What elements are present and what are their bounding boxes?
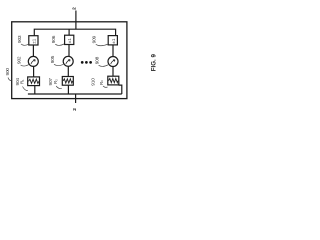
wire: resistor2 to bottom bus: [67, 85, 69, 94]
leader for 907: [56, 86, 62, 89]
wire: source3 to resistor3: [112, 67, 114, 77]
svg-text:FIG. 9: FIG. 9: [150, 54, 157, 72]
svg-text:2: 2: [72, 7, 78, 10]
ellipsis dots: [81, 61, 84, 64]
svg-text:906: 906: [51, 35, 57, 43]
current source 905: [63, 56, 73, 66]
svg-text:±1: ±1: [31, 38, 36, 44]
svg-text:R₂: R₂: [53, 79, 58, 84]
wire: resistor3 hook to bus: [119, 85, 122, 94]
wire: box1 to source1: [32, 45, 34, 56]
leader for 902: [21, 65, 29, 66]
switch box 903: [29, 36, 38, 45]
svg-text:903: 903: [17, 35, 23, 43]
svg-text:±1: ±1: [111, 38, 116, 44]
wire: top bus: [34, 29, 115, 36]
svg-text:±1: ±1: [67, 38, 72, 44]
svg-text:908: 908: [94, 56, 100, 64]
current source 908: [108, 57, 118, 67]
switch box 909: [108, 36, 117, 45]
leader for 906: [55, 44, 64, 45]
box 900 outline: [12, 22, 127, 99]
current source 902: [28, 56, 38, 66]
svg-text:910: 910: [90, 78, 96, 86]
resistor 904: [28, 77, 40, 86]
leader for 900: [8, 78, 12, 81]
wire: top riser: [75, 11, 77, 30]
leader for 909: [96, 44, 108, 46]
svg-text:2: 2: [72, 108, 78, 111]
svg-text:905: 905: [50, 55, 56, 63]
svg-text:902: 902: [16, 56, 22, 64]
switch box 906: [65, 35, 74, 44]
leader for 904: [23, 87, 28, 91]
svg-text:R₁: R₁: [19, 79, 24, 84]
resistor 907: [62, 77, 73, 86]
wire: resistor1 to bottom bus: [34, 86, 36, 94]
svg-text:909: 909: [92, 35, 98, 43]
resistor 910: [108, 76, 119, 85]
node 911 bottom terminal: [75, 94, 77, 103]
wire: box3 to source3: [112, 45, 114, 57]
wire: bottom bus: [28, 93, 122, 95]
leader for 905: [54, 64, 63, 65]
svg-text:Rₙ: Rₙ: [99, 80, 104, 85]
wire: source1 to resistor1: [33, 66, 35, 77]
leader for 908: [99, 65, 109, 67]
wire: column2 bus drop: [68, 29, 70, 35]
leader for 910: [103, 86, 108, 87]
wire: source2 to resistor2: [67, 66, 69, 76]
svg-text:900: 900: [5, 68, 11, 76]
wire: box2 to source2: [68, 45, 70, 57]
leader for 903: [21, 44, 28, 45]
